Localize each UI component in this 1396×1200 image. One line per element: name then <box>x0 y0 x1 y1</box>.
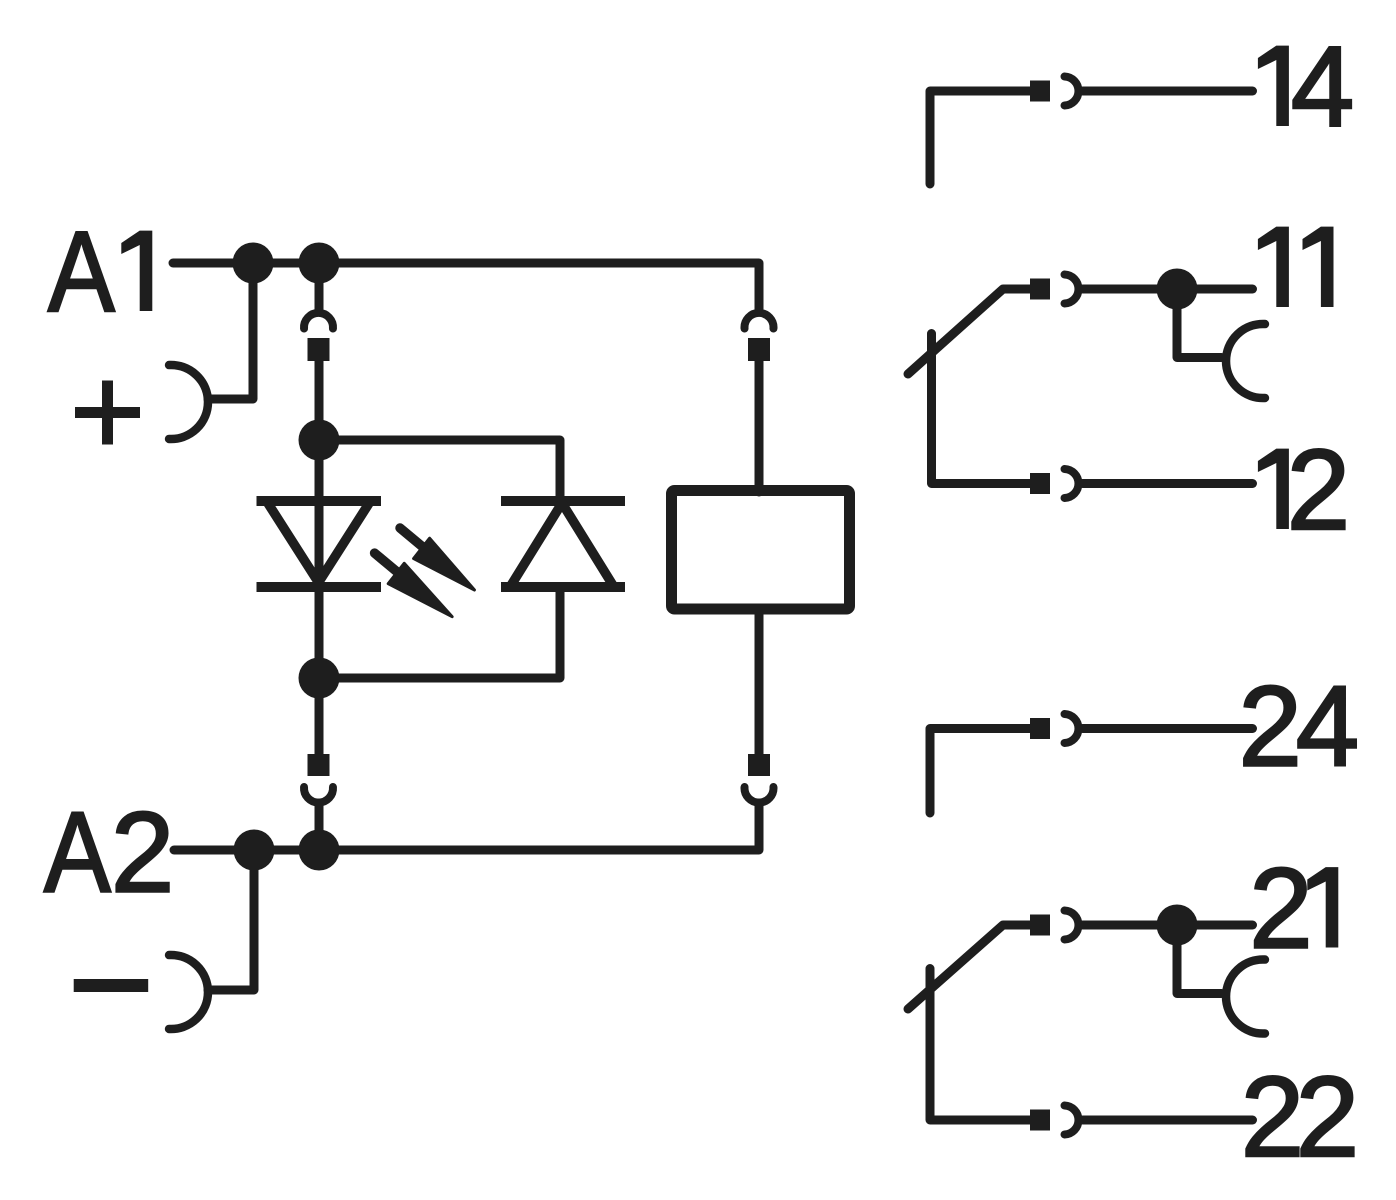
svg-text:2: 2 <box>1239 664 1302 791</box>
svg-text:2: 2 <box>1296 1054 1359 1181</box>
svg-text:A: A <box>48 208 115 335</box>
svg-text:2: 2 <box>1287 427 1350 554</box>
svg-text:A: A <box>44 789 111 916</box>
svg-text:4: 4 <box>1296 664 1359 791</box>
svg-text:2: 2 <box>1249 846 1312 973</box>
svg-text:4: 4 <box>1291 24 1354 151</box>
svg-text:2: 2 <box>111 790 174 917</box>
svg-text:2: 2 <box>1241 1054 1304 1181</box>
